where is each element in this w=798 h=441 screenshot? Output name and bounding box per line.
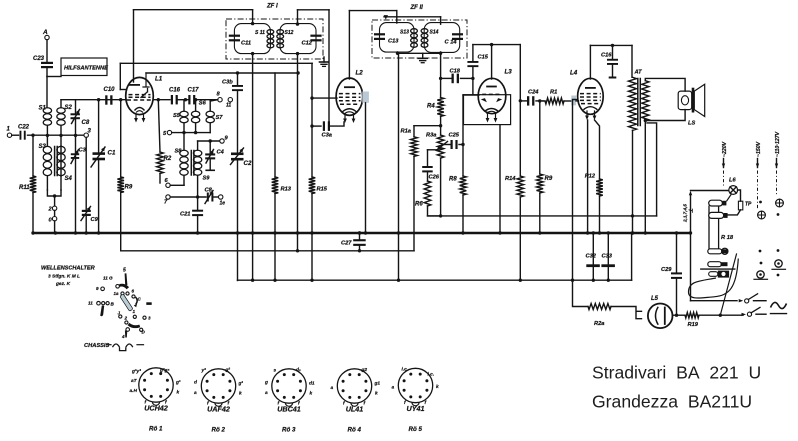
svg-text:C18: C18 [450,69,461,75]
svg-text:⊥: ⊥ [689,208,695,213]
svg-text:S4: S4 [65,176,73,182]
svg-text:C1: C1 [108,150,116,157]
svg-text:R4: R4 [427,104,435,110]
wire R13 column from screen rail [274,73,276,177]
svg-text:C26: C26 [429,175,440,181]
svg-text:LS: LS [688,121,695,127]
tank circuit loop right (S12/C12) [280,24,316,54]
svg-text:11: 11 [88,301,93,306]
svg-text:Rö 1: Rö 1 [149,426,163,433]
svg-text:g¹: g¹ [175,381,181,386]
tank circuit loop left (C13/S13) [380,23,415,52]
wire terminal3 to trimmer C9 [85,137,87,209]
svg-text:4: 4 [121,334,125,339]
S3/S4 bottom bracket [47,190,61,196]
svg-text:S 11: S 11 [255,30,265,36]
svg-text:Rö 2: Rö 2 [212,427,226,434]
svg-text:C13: C13 [388,39,399,45]
mains switch upper contact [739,299,744,302]
svg-text:g¹y³: g¹y³ [131,370,141,375]
iron core S3/S4 [54,147,56,176]
trimmer capacitor C8 (RF) [75,100,77,113]
svg-text:S9: S9 [203,176,211,182]
tube socket Roe1 UCH42 [139,368,173,402]
svg-text:L4: L4 [570,70,578,77]
svg-text:UY41: UY41 [407,404,425,413]
svg-text:g²g⁴: g²g⁴ [159,369,170,374]
svg-text:C10: C10 [104,87,116,93]
svg-text:6: 6 [132,289,135,294]
svg-text:11 G: 11 G [103,276,113,281]
svg-text:R2a: R2a [594,321,604,327]
wire A-column down to coil S1 [46,77,48,108]
wire R15/L2-grid column from AVC rail [311,63,313,177]
svg-text:C3b: C3b [222,80,233,86]
svg-text:d₂: d₂ [296,367,301,373]
pins of L4 [586,111,588,117]
svg-text:R9: R9 [545,176,553,182]
R18 lower terminal blocks [708,249,722,254]
svg-text:S14: S14 [430,30,439,36]
retouch patch beside L2 [362,92,369,103]
svg-text:C8: C8 [82,120,90,126]
AC symbol [771,302,787,308]
svg-text:L2: L2 [356,70,364,77]
svg-text:g1: g1 [374,381,381,387]
svg-text:C 14: C 14 [445,40,458,46]
svg-text:1a: 1a [114,291,119,296]
svg-text:R12: R12 [585,174,596,180]
svg-text:Rö 3: Rö 3 [282,427,296,434]
svg-text:i.c.: i.c. [402,367,409,373]
wire C2 column to bus [237,161,239,281]
tube socket Roe2 UAF42 [201,369,235,403]
svg-text:C2: C2 [244,160,252,167]
svg-text:R6: R6 [415,202,423,208]
wire bus arrow column to lamp [690,195,692,301]
pins of L3 [487,114,489,119]
svg-text:R3a: R3a [426,133,436,139]
iron core S8/S9 [190,151,192,176]
svg-text:Rö 4: Rö 4 [348,427,362,434]
svg-text:S6: S6 [199,101,207,107]
wire bus-to-HT link x631.6 [631,233,633,280]
wire right-of-ZFI column down to cathode row [328,10,330,126]
svg-text:R1: R1 [550,90,557,96]
svg-text:C24: C24 [528,90,539,96]
svg-text:Stradivari BA 221 U: Stradivari BA 221 U [592,363,761,383]
tank circuit loop right (S14/C14) [424,23,460,53]
svg-text:C17: C17 [188,88,200,94]
svg-text:k: k [239,391,242,397]
svg-text:C4: C4 [217,150,225,156]
voltage selector contact symbols [759,201,762,204]
AT core [637,79,639,126]
svg-text:g¹: g¹ [238,382,244,387]
pins of L2 [344,116,346,120]
svg-text:g: g [264,381,268,386]
AT secondary [642,81,649,121]
svg-text:Rö 5: Rö 5 [409,426,423,433]
svg-text:S7: S7 [216,115,224,121]
svg-text:1: 1 [133,309,136,314]
svg-text:ZF I: ZF I [266,4,278,10]
wire antenna to aux-antenna box [47,76,61,78]
wire AVC rail y63.3 from L1 grid to R15 column [120,62,312,64]
wire L3 cathode below box to bus [499,126,501,234]
svg-text:5: 5 [123,268,126,274]
svg-text:UAF42: UAF42 [207,405,230,414]
IF transformer ZF I dash-dot box [226,19,323,59]
R18 mounting bar [701,268,735,270]
wire AT secondary top to speaker [645,78,685,91]
svg-text:i.c.: i.c. [428,372,435,378]
svg-text:3: 3 [148,316,151,321]
svg-text:11: 11 [226,103,231,109]
svg-text:C3: C3 [79,148,87,154]
grid arrows inside L3 [481,98,487,102]
svg-text:R11: R11 [19,185,30,191]
svg-text:~220V: ~220V [722,141,728,157]
wire L3 grid stub [463,94,479,96]
node junction right of L1 [157,98,160,101]
svg-text:a: a [392,386,395,391]
wire to mains switch upper [691,300,738,302]
wire ZFI left tap to HT rail [252,233,254,280]
wire C8 column to ground bus [75,135,77,233]
svg-text:2,1,7,4,5: 2,1,7,4,5 [683,204,688,223]
wire B+ down to AT primary [631,45,633,77]
wire ZF II secondary top tap with junction arrow [384,16,441,18]
svg-text:9: 9 [96,286,99,291]
svg-text:~110·127V: ~110·127V [775,131,781,157]
mains switch lower contact [742,313,747,316]
wire screen column to bus [365,103,367,233]
svg-text:C27: C27 [341,241,352,247]
curved lead from connector to switch [689,259,739,299]
svg-text:C3a: C3a [322,133,332,139]
svg-text:TP: TP [745,202,752,208]
wire ground bus (thick) [33,232,690,234]
svg-text:C33: C33 [602,254,613,260]
svg-text:R1a: R1a [401,129,411,135]
svg-text:C11: C11 [241,41,251,47]
svg-text:L1: L1 [155,76,163,83]
svg-text:k: k [177,390,180,396]
svg-text:AT: AT [634,70,643,76]
wire L2 cathode row [312,125,321,127]
svg-text:C21: C21 [180,212,190,218]
wire L4 cathode pin to bus [587,120,589,233]
svg-text:R8: R8 [449,177,457,183]
wire B+ column x520 [519,45,521,176]
wire screen rail y73 [146,72,298,74]
wire AT tap to HT rail [647,123,657,216]
wire L4 left electrode down [573,100,578,281]
wire anode rail above L4 [590,44,632,46]
svg-text:~150V: ~150V [756,141,762,157]
svg-text:R 18: R 18 [721,235,734,241]
wire ZF II primary top tap [396,11,398,23]
wire cathode rail y216 [428,215,657,217]
svg-text:R15: R15 [317,187,328,193]
svg-text:L6: L6 [729,178,736,184]
wire L2 grid stub [312,97,337,99]
svg-text:C32: C32 [586,254,597,260]
retouch patch left of L4 [571,96,576,106]
svg-text:s: s [274,369,277,374]
wire AGC rail y251 [121,250,414,252]
svg-text:L5: L5 [651,296,659,302]
svg-text:HILFSANTENNE: HILFSANTENNE [64,65,108,71]
connector block [718,271,729,278]
ground of ZF II [422,53,424,58]
svg-text:C16: C16 [169,88,181,94]
svg-text:C25: C25 [449,133,460,139]
pins of L1 [135,115,137,120]
svg-text:C23: C23 [33,56,45,62]
svg-text:ZF II: ZF II [410,5,424,11]
svg-text:R9: R9 [125,185,133,191]
svg-text:Grandezza BA211U: Grandezza BA211U [592,392,752,412]
svg-text:2: 2 [124,316,128,321]
wire ZF II left bottom to bus [398,53,400,280]
ground of ZF I [323,57,325,62]
svg-text:a.H: a.H [130,388,138,394]
svg-text:k: k [436,384,439,390]
svg-text:k: k [375,391,378,397]
HILFSANTENNE box [61,58,107,76]
tank circuit loop left (C11/S11) [234,24,270,54]
svg-text:g2: g2 [361,367,368,373]
svg-text:WELLENSCHALTER: WELLENSCHALTER [41,266,95,272]
wire AT primary bottom to bus [632,130,634,233]
svg-text:1e: 1e [220,201,226,207]
svg-text:C15: C15 [478,55,489,61]
wire main RF rail [61,99,126,101]
svg-text:C9: C9 [91,217,99,223]
svg-text:y³: y³ [201,369,207,374]
svg-text:C16: C16 [601,53,612,59]
svg-text:k: k [310,391,313,397]
wire AT secondary bottom to speaker return and bus [644,121,646,233]
wire ZF I primary bottom to bus [251,52,254,55]
wire ZF I secondary bottom to bus [296,52,299,55]
svg-text:UL41: UL41 [346,405,364,414]
svg-text:gez. K: gez. K [55,281,71,287]
svg-text:CHASSIS: CHASSIS [84,343,109,349]
wire S9 top to node 9 [198,140,220,142]
wire ZF I secondary top tap [297,10,299,24]
tube socket Roe4 UL41 [337,369,371,403]
box around L3 base [464,95,511,125]
svg-text:a: a [194,391,197,396]
svg-text:a: a [265,391,268,396]
svg-text:g²: g² [225,368,231,373]
wire ZF II bottoms [398,52,441,53]
wire top rail from L1 grid [134,9,253,11]
tube socket Roe3 UBC41 [272,369,306,403]
wire R4 bottom junction row [439,124,442,127]
wire anode rail above L3 [473,44,520,46]
wire HT rail y280 [238,279,632,281]
svg-text:R14: R14 [505,176,516,182]
svg-text:S12: S12 [285,30,294,36]
svg-text:3 Stfgn. K M L: 3 Stfgn. K M L [48,274,80,280]
wire L4 grid stub [576,100,579,102]
IF transformer ZF II dash-dot box [372,20,467,58]
wire ZF I primary top tap [251,22,254,25]
svg-text:C29: C29 [661,267,672,273]
wire anode rail L2 to ZF II [349,10,396,12]
tube socket Roe5 UY41 [398,368,432,402]
diagonal lead to R19 node [720,254,736,315]
svg-text:R19: R19 [688,322,699,328]
svg-text:S13: S13 [400,30,409,36]
svg-text:R13: R13 [281,187,292,193]
svg-text:a: a [331,386,334,391]
svg-text:L3: L3 [505,69,513,76]
svg-text:C22: C22 [18,125,30,131]
svg-text:d1: d1 [309,381,315,387]
